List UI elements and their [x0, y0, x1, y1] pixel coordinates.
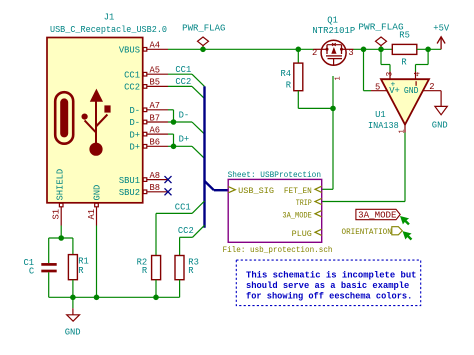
J1 pin A6 D+: [143, 132, 168, 136]
svg-text:USB_SIG: USB_SIG: [238, 186, 274, 196]
J1 pin A1 GND: [95, 203, 99, 225]
svg-text:D+: D+: [129, 130, 140, 140]
svg-text:TRIP: TRIP: [296, 199, 312, 208]
junction at R5 right / pin4 branch: [425, 47, 431, 53]
wire CC1 from J1 to bus entry: [168, 73, 192, 75]
ground symbol GND right: [435, 106, 447, 114]
svg-text:CC1: CC1: [175, 65, 191, 75]
svg-text:R5: R5: [399, 31, 410, 41]
svg-text:R: R: [142, 266, 148, 276]
svg-text:GND: GND: [404, 86, 419, 96]
svg-text:3A_MODE: 3A_MODE: [282, 211, 312, 220]
svg-text:2: 2: [312, 48, 317, 58]
svg-text:5: 5: [375, 82, 380, 92]
note text box: [236, 260, 420, 306]
bus entry CC1: [192, 74, 205, 86]
svg-text:PWR_FLAG: PWR_FLAG: [182, 24, 225, 34]
svg-text:SHIELD: SHIELD: [55, 169, 65, 201]
connector J1 USB_C_Receptacle_USB2.0 body: [47, 38, 143, 203]
USB-C receptacle glyph: [55, 92, 73, 144]
junction at R1 bottom: [70, 295, 76, 301]
svg-text:J1: J1: [104, 13, 115, 23]
junction at D-: [171, 119, 177, 125]
svg-text:SBU1: SBU1: [119, 176, 140, 186]
wire D+ pins joined: [168, 134, 192, 146]
bus entry D-: [192, 122, 205, 134]
svg-text:GND: GND: [65, 328, 81, 338]
bus entry CC2: [192, 86, 205, 98]
svg-text:GND: GND: [432, 120, 448, 130]
wire D- pins joined: [168, 110, 192, 122]
svg-text:V+: V+: [389, 86, 400, 96]
no-connect X on pin A8: [165, 176, 172, 183]
wire V+ supply to opamp pin 5: [364, 49, 372, 90]
sheet pin TRIP: [315, 198, 322, 204]
svg-text:S1: S1: [52, 209, 62, 220]
svg-text:R4: R4: [280, 69, 291, 79]
hierarchical sheet USBProtection: [228, 179, 322, 242]
wire R4 top lead: [297, 49, 299, 63]
dangling cursor arrow at 3A_MODE: [400, 216, 410, 225]
J1 pin A5 CC1: [143, 72, 168, 76]
wire C1 bottom lead: [48, 272, 50, 297]
sheet pin FET_EN: [315, 186, 322, 192]
wire CC2 from J1 to bus entry: [168, 85, 192, 87]
J1 pin S1 SHIELD: [59, 203, 63, 225]
svg-text:CC2: CC2: [124, 83, 140, 93]
svg-text:D-: D-: [179, 110, 190, 120]
op-amp U1 INA138: [371, 72, 441, 133]
wire gate of Q1 down to sheet pin FET_EN: [322, 76, 333, 189]
svg-text:PWR_FLAG: PWR_FLAG: [358, 22, 403, 32]
svg-text:Sheet: USBProtection: Sheet: USBProtection: [228, 172, 321, 180]
svg-text:1: 1: [335, 76, 343, 80]
J1 pin A4 VBUS: [143, 48, 168, 52]
J1 pin A7 D-: [143, 108, 168, 112]
svg-text:CC2: CC2: [175, 77, 191, 87]
wire bottom ground rail: [49, 296, 180, 298]
USB trident glyph: [82, 89, 111, 156]
J1 pin A8 SBU1: [143, 178, 168, 182]
resistor R1: [68, 255, 77, 280]
junction at R4 top on VBUS rail: [296, 47, 302, 53]
svg-text:D+: D+: [179, 135, 190, 145]
svg-text:This schematic is incomplete b: This schematic is incomplete but: [246, 271, 417, 281]
power flag PWR_FLAG right: [376, 37, 387, 49]
svg-text:A8: A8: [150, 171, 161, 181]
global label 3A_MODE: [356, 209, 400, 220]
wire A1 GND down to bottom rail: [96, 226, 98, 298]
svg-text:U1: U1: [375, 110, 386, 120]
svg-text:Q1: Q1: [327, 16, 338, 26]
svg-text:VBUS: VBUS: [119, 46, 140, 56]
wire Q1 drain to R5: [354, 48, 393, 50]
svg-text:File: usb_protection.sch: File: usb_protection.sch: [223, 247, 333, 255]
sheet pin USB_SIG: [228, 187, 235, 193]
svg-text:B8: B8: [150, 183, 161, 193]
wire opamp pin 3 to PWR_FLAG node: [381, 49, 390, 71]
junction at gate node: [330, 106, 336, 112]
junction at A1 bottom: [94, 295, 100, 301]
resistor R2: [152, 256, 161, 280]
svg-text:D-: D-: [129, 106, 140, 116]
ground symbol GND bottom: [67, 297, 80, 321]
svg-text:should serve as a basic exampl: should serve as a basic example: [246, 281, 409, 291]
svg-text:3: 3: [386, 72, 395, 77]
junction at PWR_FLAG right: [378, 47, 384, 53]
bus entry D+: [192, 146, 205, 158]
svg-text:A4: A4: [150, 41, 161, 51]
svg-text:A5: A5: [150, 66, 161, 76]
junction at D+: [171, 144, 177, 150]
svg-text:PLUG: PLUG: [292, 230, 312, 239]
wire CC2 to R3: [180, 237, 193, 255]
capacitor C1: [41, 264, 56, 271]
svg-text:4: 4: [414, 72, 423, 77]
wire VBUS rail from J1 to Q1: [168, 48, 314, 50]
wire S1 shield to C1/R1 node: [49, 226, 73, 264]
wire R4 bottom lead to gate node: [298, 91, 333, 109]
svg-text:A7: A7: [150, 101, 161, 111]
svg-text:B7: B7: [150, 113, 161, 123]
svg-text:SBU2: SBU2: [119, 188, 140, 198]
bus entry CC1 lower: [192, 201, 204, 213]
svg-text:CC1: CC1: [124, 70, 140, 80]
wire R2 bottom lead: [155, 280, 157, 298]
svg-text:FET_EN: FET_EN: [284, 187, 312, 196]
svg-text:R: R: [188, 266, 194, 276]
svg-text:B5: B5: [150, 78, 161, 88]
svg-text:GND: GND: [93, 185, 103, 201]
svg-text:CC1: CC1: [175, 202, 191, 212]
svg-text:CC2: CC2: [178, 226, 194, 236]
J1 pin B8 SBU2: [143, 190, 168, 194]
svg-text:USB_C_Receptacle_USB2.0: USB_C_Receptacle_USB2.0: [50, 25, 167, 35]
resistor R4: [294, 63, 303, 91]
wire opamp output pin 1 down to TRIP: [322, 133, 405, 202]
svg-text:C: C: [29, 266, 34, 276]
svg-text:NTR2101P: NTR2101P: [312, 26, 355, 36]
power flag PWR_FLAG left: [198, 37, 209, 49]
svg-text:+5V: +5V: [433, 23, 450, 33]
hierarchical label ORIENTATION: [342, 227, 403, 237]
resistor R5: [392, 44, 417, 54]
svg-text:INA138: INA138: [368, 121, 399, 131]
J1 pin B7 D-: [143, 120, 168, 124]
junction at shield node: [58, 235, 64, 241]
wire opamp pin 4 to R5 right node: [416, 49, 429, 71]
svg-text:3: 3: [348, 48, 353, 58]
svg-text:R: R: [78, 266, 84, 276]
transistor Q1 NTR2101P: [314, 40, 354, 65]
sheet pin PLUG: [315, 229, 322, 235]
bus vertical USB signals: [205, 86, 229, 227]
svg-text:R: R: [401, 58, 407, 68]
power symbol +5V: [437, 37, 445, 50]
resistor R3: [175, 256, 184, 280]
junction at R2 bottom: [153, 295, 159, 301]
wire R1 bottom lead: [72, 280, 74, 298]
svg-text:for showing off eeschema color: for showing off eeschema colors.: [246, 292, 412, 302]
dangling cursor arrow at ORIENTATION: [403, 231, 413, 240]
svg-text:2: 2: [429, 82, 434, 92]
svg-text:B6: B6: [150, 138, 161, 148]
svg-text:A6: A6: [150, 125, 161, 135]
junction at opamp V+ branch: [361, 47, 367, 53]
svg-text:D+: D+: [129, 143, 140, 153]
wire CC1 to R2: [156, 213, 192, 255]
svg-text:D-: D-: [129, 118, 140, 128]
J1 pin B5 CC2: [143, 85, 168, 89]
bus entry CC2 lower: [193, 225, 205, 237]
sheet pin 3A_MODE: [315, 211, 322, 217]
wire opamp pin 2 to GND, ground symbol stem: [440, 91, 442, 107]
junction at PWR_FLAG left on VBUS rail: [200, 47, 206, 53]
J1 pin B6 D+: [143, 145, 168, 149]
svg-text:R: R: [286, 80, 292, 90]
svg-text:3A_MODE: 3A_MODE: [358, 211, 396, 221]
wire R5 right to +5V: [417, 48, 441, 50]
wire R3 bottom lead: [179, 280, 181, 298]
svg-text:A1: A1: [87, 209, 97, 220]
svg-text:ORIENTATION: ORIENTATION: [342, 228, 392, 237]
no-connect X on pin B8: [165, 188, 172, 195]
